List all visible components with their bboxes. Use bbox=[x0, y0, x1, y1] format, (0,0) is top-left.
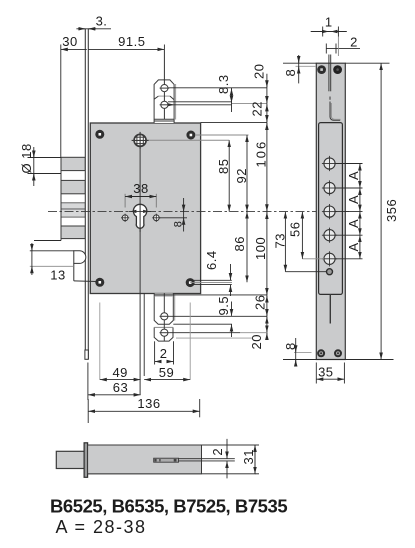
svg-text:8: 8 bbox=[283, 69, 298, 77]
svg-text:2: 2 bbox=[350, 35, 358, 50]
svg-text:106: 106 bbox=[254, 140, 269, 168]
svg-text:86: 86 bbox=[232, 236, 247, 251]
svg-text:100: 100 bbox=[253, 237, 268, 260]
svg-text:8: 8 bbox=[283, 342, 298, 350]
svg-text:38: 38 bbox=[133, 181, 148, 196]
svg-text:63: 63 bbox=[113, 380, 128, 395]
svg-text:2: 2 bbox=[160, 346, 168, 361]
svg-text:59: 59 bbox=[159, 365, 174, 380]
svg-text:56: 56 bbox=[288, 222, 303, 237]
svg-text:Ø 18: Ø 18 bbox=[19, 143, 34, 173]
svg-text:92: 92 bbox=[234, 168, 249, 183]
svg-text:20: 20 bbox=[249, 334, 264, 349]
svg-text:9.5: 9.5 bbox=[216, 296, 231, 316]
svg-text:A: A bbox=[346, 195, 361, 204]
svg-text:49: 49 bbox=[112, 365, 127, 380]
svg-text:3.: 3. bbox=[96, 14, 108, 29]
svg-text:136: 136 bbox=[137, 396, 160, 411]
svg-text:20: 20 bbox=[252, 64, 267, 79]
svg-text:73: 73 bbox=[272, 233, 287, 248]
svg-text:A: A bbox=[346, 219, 361, 228]
svg-text:A: A bbox=[346, 242, 361, 251]
svg-text:85: 85 bbox=[216, 159, 231, 174]
svg-text:6.4: 6.4 bbox=[204, 250, 219, 270]
svg-text:91.5: 91.5 bbox=[118, 34, 145, 49]
svg-text:8.3: 8.3 bbox=[216, 74, 231, 94]
svg-text:31: 31 bbox=[241, 449, 256, 464]
svg-text:26: 26 bbox=[253, 295, 268, 310]
svg-text:1: 1 bbox=[325, 15, 333, 30]
svg-text:13: 13 bbox=[50, 268, 65, 283]
svg-text:2: 2 bbox=[210, 448, 225, 456]
svg-text:A = 28-38: A = 28-38 bbox=[56, 517, 147, 537]
svg-text:30: 30 bbox=[62, 34, 77, 49]
svg-text:A: A bbox=[346, 171, 361, 180]
svg-text:35: 35 bbox=[318, 365, 333, 380]
svg-text:356: 356 bbox=[384, 199, 399, 222]
svg-text:8: 8 bbox=[172, 221, 184, 228]
svg-text:22: 22 bbox=[250, 101, 265, 116]
svg-text:B6525, B6535, B7525, B7535: B6525, B6535, B7525, B7535 bbox=[50, 496, 287, 517]
